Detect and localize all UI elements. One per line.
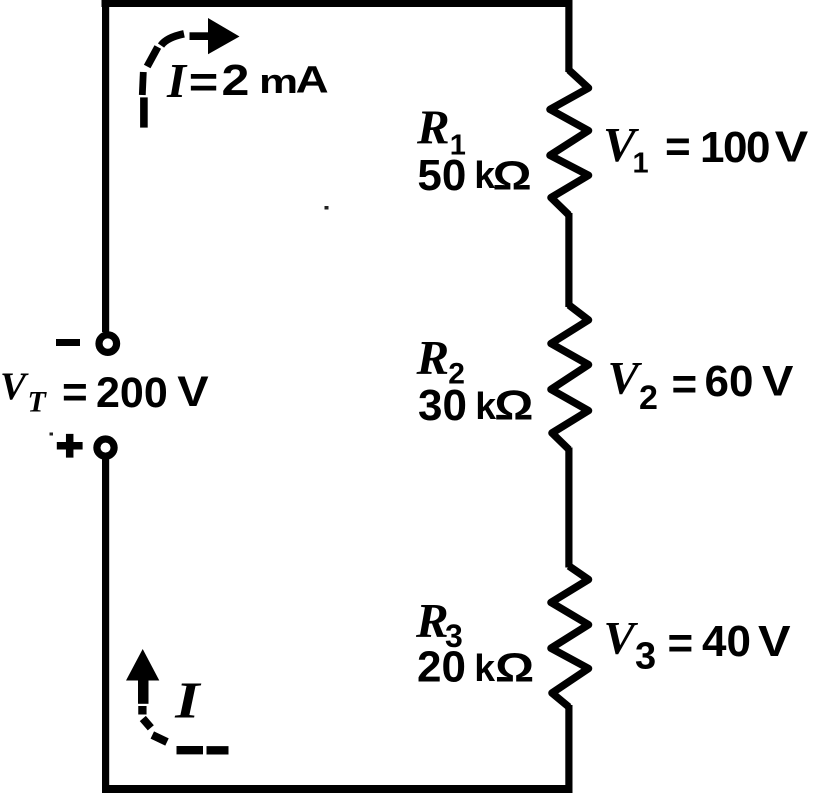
svg-text:=: = — [668, 619, 694, 668]
svg-text:3: 3 — [635, 636, 656, 678]
svg-text:Ω: Ω — [493, 152, 532, 198]
wire right segment R2-R3 — [565, 448, 572, 568]
speck — [325, 206, 329, 210]
svg-text:V: V — [177, 367, 208, 415]
svg-text:T: T — [28, 386, 48, 419]
current arrow bottom: dash 2 — [143, 719, 151, 728]
resistor R1 — [550, 70, 589, 215]
current arrow bottom: head — [126, 649, 159, 681]
svg-text:1: 1 — [633, 148, 649, 180]
current arrow top: head — [208, 18, 240, 54]
wire right segment bottom — [565, 705, 572, 793]
wire bottom — [102, 785, 573, 793]
svg-text:V: V — [604, 613, 639, 665]
svg-text:V: V — [762, 357, 793, 405]
svg-text:k: k — [474, 647, 496, 689]
svg-text:I: I — [174, 672, 201, 729]
wire top — [102, 0, 573, 7]
current arrow bottom: shaft — [138, 679, 149, 704]
wire left upper — [102, 0, 109, 332]
svg-text:R: R — [415, 593, 449, 648]
svg-text:V: V — [775, 121, 809, 170]
svg-text:Ω: Ω — [494, 382, 533, 429]
svg-text:30: 30 — [418, 381, 467, 430]
svg-text:20: 20 — [417, 643, 466, 692]
svg-text:I: I — [166, 53, 188, 108]
svg-text:A: A — [296, 58, 329, 101]
current arrow top: dash 4 — [161, 34, 184, 46]
svg-text:=: = — [672, 360, 698, 409]
svg-text:=: = — [62, 368, 88, 417]
resistor R3 — [551, 566, 589, 707]
svg-text:100: 100 — [700, 123, 769, 172]
svg-text:R: R — [416, 330, 450, 385]
current arrow bottom: dash 1 — [138, 706, 146, 715]
svg-text:200: 200 — [96, 369, 168, 417]
current arrow top: dash 1 — [140, 97, 148, 127]
wire left lower — [102, 457, 109, 793]
svg-text:V: V — [608, 353, 643, 405]
current arrow bottom: dash 5 — [207, 746, 229, 754]
svg-text:Ω: Ω — [495, 644, 534, 690]
svg-text:R: R — [416, 100, 450, 155]
current arrow top: dash 2 — [142, 72, 143, 95]
wire right segment R1-R2 — [565, 213, 572, 307]
svg-text:2: 2 — [222, 55, 250, 104]
svg-text:40: 40 — [702, 617, 751, 666]
terminal node plus — [97, 439, 114, 456]
svg-text:=: = — [665, 122, 691, 171]
current arrow top: dash 3 — [147, 47, 158, 67]
svg-text:V: V — [758, 616, 791, 665]
svg-text:=: = — [189, 58, 219, 107]
resistor R2 — [551, 305, 589, 450]
svg-text:V: V — [0, 365, 29, 408]
terminal node minus — [99, 335, 117, 353]
current arrow bottom: dash 4 — [177, 746, 204, 754]
speck — [50, 433, 54, 436]
svg-text:60: 60 — [705, 357, 754, 406]
current arrow bottom: dash 3 — [152, 735, 167, 742]
svg-text:50: 50 — [417, 151, 466, 200]
plus sign — [57, 434, 83, 458]
current arrow top: shaft — [190, 32, 209, 40]
minus sign — [56, 339, 80, 346]
svg-text:2: 2 — [639, 379, 658, 417]
wire right segment top — [565, 0, 572, 72]
svg-text:m: m — [259, 63, 298, 101]
